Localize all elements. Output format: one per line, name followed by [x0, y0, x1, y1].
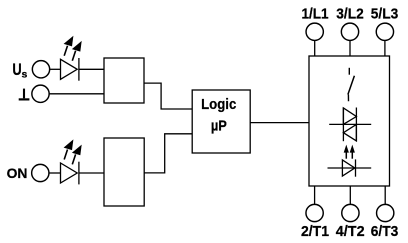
box input stage [104, 58, 144, 103]
LED D1 emission arrows [64, 36, 82, 61]
terminal 6/T3 [377, 204, 394, 221]
wire terminal 3/L2 to box [349, 40, 351, 56]
wire box to terminal 4/T2 [349, 186, 351, 204]
box control stage [104, 138, 144, 206]
ground symbol ⊥ [19, 89, 30, 100]
LED D3 emission arrows [344, 145, 355, 159]
wire LED D2 to control box [79, 172, 104, 174]
box output section [309, 56, 390, 186]
svg-text:U: U [12, 61, 21, 79]
svg-text:4/T2: 4/T2 [336, 223, 365, 240]
terminal Us [32, 61, 49, 78]
svg-text:3/L2: 3/L2 [336, 6, 363, 23]
wire logic box to output box [250, 122, 309, 124]
triac Q1 [329, 108, 371, 142]
terminal 1/L1 [306, 23, 323, 40]
terminal ⊥ [32, 85, 49, 102]
LED D2 [61, 162, 79, 185]
switch contact S1 [348, 68, 355, 101]
wire ON circle to LED D2 [49, 172, 61, 174]
svg-text:s: s [22, 69, 28, 81]
LED D2 emission arrows [64, 139, 82, 164]
wire terminal 5/L3 to box [384, 40, 386, 56]
svg-text:µP: µP [211, 118, 227, 134]
LED D1 [61, 58, 79, 81]
svg-text:5/L3: 5/L3 [371, 6, 398, 23]
terminal 5/L3 [376, 23, 393, 40]
terminal 4/T2 [342, 204, 359, 221]
wire LED D1 to input box [79, 68, 104, 70]
svg-text:2/T1: 2/T1 [301, 223, 329, 240]
wire Us circle to LED D1 [50, 68, 61, 70]
wire input box to logic box [144, 83, 192, 109]
wire terminal 1/L1 to box [314, 40, 316, 56]
svg-text:ON: ON [7, 165, 28, 181]
terminal 3/L2 [341, 23, 358, 40]
wire box to terminal 2/T1 [314, 186, 316, 204]
svg-text:1/L1: 1/L1 [302, 6, 329, 23]
terminal 2/T1 [306, 204, 323, 221]
svg-text:Logic: Logic [201, 96, 236, 113]
svg-text:6/T3: 6/T3 [371, 223, 399, 240]
wire ⊥ to input box [49, 93, 104, 95]
wire control box to logic box [144, 134, 192, 173]
LED D3 [328, 159, 372, 176]
terminal ON [32, 164, 49, 181]
box logic U1 [192, 90, 250, 153]
wire box to terminal 6/T3 [384, 186, 386, 204]
